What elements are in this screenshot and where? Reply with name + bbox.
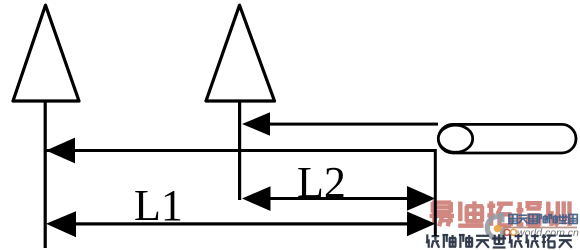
arrowhead on reference line (points left at antenna 1 stem) (46, 138, 75, 164)
wire: feed line from rod to antenna 2 (266, 123, 438, 126)
watermark bottom slogan characters (426, 234, 572, 249)
svg-text:L1: L1 (134, 181, 183, 230)
wire: antenna 2 stem (238, 101, 241, 200)
watermark small navy text (508, 214, 578, 225)
dimension line L1 (66, 222, 416, 225)
rod element (cylinder body) (439, 124, 577, 153)
wire: reference line from rod corner down and left to antenna 1 stem (46, 151, 435, 237)
rod element end cap (ellipse) (438, 125, 472, 152)
wire: antenna 1 stem (44, 101, 47, 248)
antenna element 1 (left triangle) (13, 5, 79, 101)
watermark red title characters (430, 200, 572, 228)
dimension line L2 (262, 197, 414, 200)
antenna element 2 (middle triangle) (206, 5, 275, 101)
arrowhead L2 right (407, 186, 435, 211)
watermark logo d (487, 213, 505, 240)
watermark url text (504, 227, 579, 239)
arrowhead L2 left (242, 186, 271, 211)
svg-text:L2: L2 (297, 158, 346, 207)
arrowhead L1 right (407, 212, 435, 237)
arrowhead L1 left (46, 211, 76, 237)
arrowhead on feed line (points left at antenna 2 stem) (242, 112, 270, 135)
watermark underline (503, 227, 577, 229)
